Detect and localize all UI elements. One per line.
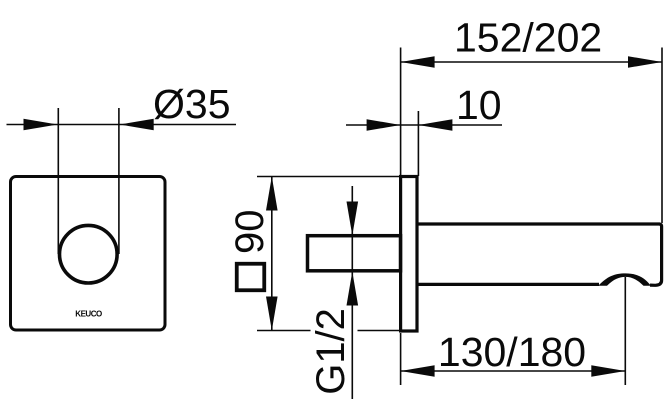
svg-text:10: 10 — [456, 82, 502, 128]
svg-text:Ø35: Ø35 — [153, 81, 231, 127]
dimension line 130/180 — [401, 370, 626, 372]
extension line left of Ø35 — [57, 108, 59, 254]
arrow right 10 (pointing left at plate right face) — [418, 119, 452, 131]
arrow bottom 90 (pointing down) — [266, 297, 278, 331]
arrow above pipe G1/2 (pointing down) — [347, 202, 359, 236]
svg-text:90: 90 — [228, 210, 272, 255]
arrow top 90 (pointing up) — [266, 177, 278, 211]
KEUCO logo text — [75, 310, 102, 319]
dimension line Ø35 — [7, 124, 237, 126]
extension line bottom of plate left segment (90 dim) — [257, 330, 311, 332]
dimension line 10 — [346, 124, 502, 126]
svg-text:130/180: 130/180 — [438, 329, 586, 375]
extension line at spout tip — [661, 48, 663, 224]
arrow left Ø35 (pointing right at left ext line) — [24, 119, 58, 131]
extension line right of Ø35 — [118, 108, 120, 254]
outlet lip crescent — [598, 273, 651, 285]
front escutcheon plate (square 90) — [11, 177, 166, 331]
svg-text:152/202: 152/202 — [454, 15, 602, 61]
G1/2 connection pipe — [308, 236, 401, 271]
dimension line 152/202 — [401, 61, 662, 63]
extension line at wall face (left of plate, top) — [400, 48, 402, 177]
svg-text:KEUCO: KEUCO — [75, 310, 102, 319]
extension line top of plate (90 dim) — [257, 176, 400, 178]
svg-text:G1/2: G1/2 — [309, 308, 353, 395]
arrow left 130/180 (tip at wall face, pointing left) — [401, 365, 435, 377]
arrow right 130/180 (tip at outlet, pointing right) — [591, 365, 625, 377]
arrow right 152/202 (tip at spout tip, pointing right) — [628, 56, 662, 68]
arrow right Ø35 (pointing left at right ext line) — [120, 119, 154, 131]
arrow below pipe G1/2 (pointing up) — [347, 272, 359, 306]
square symbol of □90 — [237, 264, 265, 291]
extension line bottom of plate right segment (90 dim) — [358, 330, 400, 332]
spout cross-section circle Ø35 — [60, 225, 118, 283]
dimension line 90 (vertical) — [271, 177, 273, 331]
arrow left 10 (pointing right at wall face) — [367, 119, 401, 131]
dimension line G1/2 (vertical) — [351, 186, 353, 399]
spout body with outlet — [417, 224, 662, 286]
extension line at plate right face (10 dim) — [417, 111, 419, 176]
extension line from outlet crest (130/180 dim) — [624, 277, 626, 385]
extension line below plate left face (130/180 dim) — [400, 333, 402, 385]
arrow left 152/202 (tip at wall face, pointing left) — [401, 56, 435, 68]
wall flange plate (side view) — [401, 177, 417, 332]
